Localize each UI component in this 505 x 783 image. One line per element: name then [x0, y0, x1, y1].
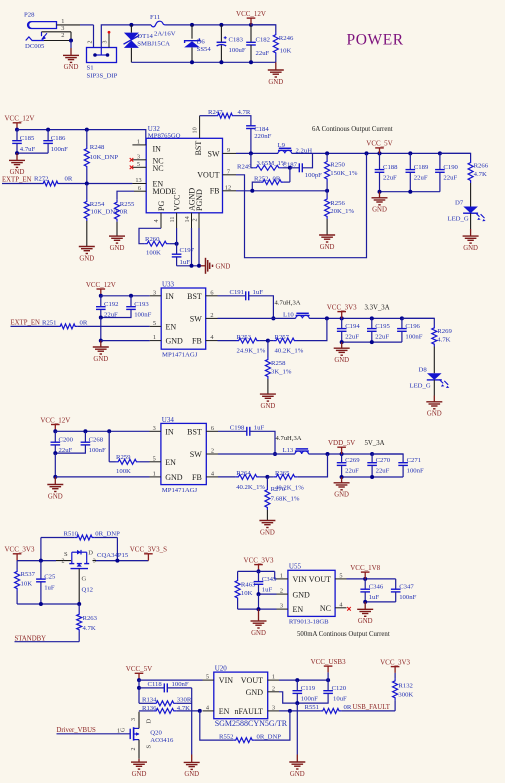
svg-text:22uF: 22uF: [375, 333, 389, 340]
svg-text:SS54: SS54: [197, 46, 212, 53]
svg-text:VOUT: VOUT: [309, 575, 331, 584]
pin 3 nFAULT U20: [268, 705, 279, 712]
switch S1 SIP3S_DIP: [87, 34, 118, 80]
svg-text:VOUT: VOUT: [197, 171, 219, 180]
net label Driver_VBUS: [57, 727, 96, 734]
power VDD_5V output: [328, 439, 355, 454]
wire SW node: [236, 151, 278, 155]
capacitor C120 10uF: [297, 680, 347, 703]
svg-text:3: 3: [61, 25, 64, 32]
pin 2 SW U34: [206, 448, 218, 455]
pin 5 EN U34: [150, 455, 161, 462]
pin 1 GND U34: [150, 471, 161, 478]
wire pin3 to pin2 junction: [69, 32, 73, 43]
ground D7: [463, 229, 479, 252]
ground R254: [79, 247, 95, 263]
svg-text:VCC_5V: VCC_5V: [126, 665, 152, 673]
wire C192 gnd leg: [99, 318, 103, 343]
svg-text:R134: R134: [142, 696, 157, 703]
ground U32 sideways: [201, 258, 231, 274]
svg-text:1: 1: [137, 139, 140, 146]
wire bottom return rail: [131, 60, 275, 64]
svg-text:2: 2: [272, 685, 275, 692]
power VCC_3V3_S: [130, 546, 167, 561]
svg-text:R551: R551: [305, 704, 320, 711]
svg-text:C197: C197: [180, 247, 195, 254]
text L13 rating: [276, 435, 302, 442]
capacitor C182 22uF: [246, 25, 270, 62]
svg-text:VCC_3V3: VCC_3V3: [327, 303, 357, 311]
svg-text:22uF: 22uF: [376, 468, 390, 475]
LED D7 LED_G: [448, 200, 486, 229]
svg-text:5: 5: [153, 455, 156, 462]
svg-text:R254: R254: [90, 201, 105, 208]
svg-text:10K_DNP: 10K_DNP: [90, 154, 119, 161]
wire jack pin2: [44, 40, 71, 42]
capacitor C25 1uF: [36, 561, 56, 604]
svg-text:D: D: [88, 549, 93, 556]
svg-text:100pF: 100pF: [305, 172, 322, 179]
svg-text:3: 3: [93, 558, 96, 564]
node 12V input rail: [129, 23, 151, 27]
capacitor C184 220nF: [246, 126, 271, 154]
svg-text:GND: GND: [334, 492, 349, 499]
resistor R255 0R: [115, 200, 135, 236]
svg-text:C195: C195: [375, 323, 390, 330]
capacitor C189 22uF: [406, 153, 429, 191]
svg-text:C191: C191: [230, 289, 245, 296]
svg-text:P28: P28: [24, 12, 35, 19]
resistor R134 330R: [139, 696, 192, 705]
power VCC_3V3 U55: [244, 556, 274, 573]
svg-text:nFAULT: nFAULT: [235, 707, 264, 716]
svg-text:EN: EN: [166, 323, 177, 332]
svg-text:13: 13: [135, 177, 141, 184]
svg-text:GND: GND: [463, 245, 478, 252]
svg-text:R258: R258: [271, 360, 286, 367]
wire output cap bottoms: [378, 190, 440, 194]
svg-text:VCC_12V: VCC_12V: [236, 10, 266, 18]
wire U20 VIN: [139, 679, 203, 681]
svg-text:0R: 0R: [120, 209, 128, 216]
svg-text:1: 1: [280, 573, 283, 580]
resistor R258 3K_1%: [265, 341, 291, 395]
svg-text:3: 3: [103, 41, 109, 44]
svg-text:3.3V_3A: 3.3V_3A: [365, 304, 390, 311]
svg-text:1uF: 1uF: [44, 585, 55, 592]
svg-text:20K_1%: 20K_1%: [330, 208, 354, 215]
ground R256: [319, 235, 335, 251]
IC U33 MP1471AGJ: [161, 281, 206, 359]
resistor R252 0R: [252, 168, 290, 191]
svg-text:USB_FAULT: USB_FAULT: [353, 704, 391, 711]
power VCC_5V U20: [126, 665, 152, 682]
ground R258: [260, 394, 276, 410]
svg-text:GND: GND: [48, 493, 63, 500]
svg-text:NC: NC: [153, 164, 164, 173]
svg-text:C346: C346: [369, 584, 384, 591]
svg-text:GND: GND: [184, 771, 199, 778]
svg-text:SW: SW: [190, 314, 202, 323]
capacitor C190 22uF: [435, 153, 458, 191]
svg-text:GND: GND: [166, 337, 184, 346]
capacitor C186 100nF: [43, 130, 68, 154]
svg-text:GND: GND: [260, 529, 275, 536]
ground U34: [47, 477, 63, 500]
svg-text:22uF: 22uF: [256, 50, 270, 57]
svg-text:SW: SW: [208, 149, 220, 158]
svg-text:220nF: 220nF: [254, 133, 271, 140]
capacitor C345 1uF: [254, 571, 277, 594]
svg-text:GND: GND: [427, 411, 442, 418]
capacitor C191 1uF: [218, 289, 276, 321]
svg-text:R552: R552: [219, 733, 234, 740]
wire VCC branch: [137, 680, 141, 703]
svg-text:C345: C345: [262, 576, 277, 583]
wire U55 input: [238, 571, 277, 579]
svg-text:GND: GND: [10, 169, 25, 176]
wire U32 analog ground: [177, 264, 201, 268]
power VCC_3V3 R132: [380, 658, 410, 678]
svg-text:0R_DNP: 0R_DNP: [257, 733, 282, 740]
capacitor C192 22uF: [96, 296, 119, 319]
svg-text:R270: R270: [271, 486, 286, 493]
svg-text:BST: BST: [187, 292, 202, 301]
svg-text:C347: C347: [399, 584, 414, 591]
svg-text:C270: C270: [376, 457, 391, 464]
svg-text:VIN: VIN: [293, 575, 307, 584]
svg-text:GND: GND: [293, 590, 311, 599]
svg-text:VCC_3V3: VCC_3V3: [380, 658, 410, 666]
capacitor C271 100nF: [372, 454, 424, 477]
pin 1 VOUT U20: [268, 674, 279, 681]
svg-text:GND: GND: [93, 356, 108, 363]
wire U55 en: [238, 607, 277, 611]
wire C200 gnd leg: [53, 453, 57, 479]
resistor R552 0R_DNP: [200, 711, 290, 743]
svg-text:GND: GND: [64, 64, 79, 71]
svg-text:VOUT: VOUT: [241, 676, 263, 685]
pin 1 IN: [132, 139, 146, 146]
svg-text:100nF: 100nF: [172, 681, 189, 688]
svg-text:0R: 0R: [344, 704, 352, 711]
ground Q20: [131, 759, 147, 778]
svg-text:R251: R251: [42, 320, 57, 327]
wire C118 R134 gnd leg: [191, 688, 193, 755]
net label STANDBY: [15, 635, 47, 642]
svg-text:L10: L10: [283, 311, 294, 318]
svg-text:LED_G: LED_G: [410, 382, 431, 389]
wire U55 gnd pin: [257, 592, 277, 609]
svg-text:DT14: DT14: [137, 33, 153, 40]
svg-text:C25: C25: [44, 573, 56, 580]
svg-text:100nF: 100nF: [407, 468, 424, 475]
pin 14 AGND: [184, 213, 192, 266]
capacitor C118 100nF: [139, 681, 192, 692]
svg-text:RT9013-18GB: RT9013-18GB: [289, 618, 329, 625]
svg-text:SMBJ15CA: SMBJ15CA: [137, 41, 170, 48]
svg-text:GND: GND: [372, 207, 387, 214]
svg-text:PGND: PGND: [195, 189, 204, 211]
svg-text:330R: 330R: [177, 696, 192, 703]
resistor R272 0R: [34, 176, 73, 187]
wire Q12 gate net: [78, 569, 80, 604]
svg-text:VIN: VIN: [219, 676, 233, 685]
pin 2 GND U20: [268, 685, 279, 692]
ground 3V3 caps: [334, 342, 350, 364]
capacitor C347 100nF: [391, 579, 417, 602]
svg-text:IN: IN: [166, 292, 175, 301]
svg-text:C194: C194: [345, 323, 360, 330]
power VCC_12V input: [236, 10, 266, 25]
svg-text:10K: 10K: [280, 47, 292, 54]
svg-text:MP1471AGJ: MP1471AGJ: [162, 487, 198, 494]
svg-text:SIP3S_DIP: SIP3S_DIP: [87, 73, 118, 80]
IC U34 MP1471AGJ: [161, 416, 206, 494]
capacitor C198 1uF: [218, 424, 277, 456]
svg-text:AO3416: AO3416: [150, 737, 174, 744]
diode D6 SS54: [184, 25, 211, 62]
svg-text:6: 6: [138, 185, 141, 192]
pin 3 IN U34: [150, 425, 161, 432]
IC U32 MP8765GQ: [146, 125, 222, 213]
svg-text:VCC_USB3: VCC_USB3: [311, 658, 347, 666]
svg-text:4.7uH,3A: 4.7uH,3A: [275, 300, 301, 307]
wire VOUT sense loop: [236, 153, 367, 257]
svg-text:2: 2: [61, 32, 64, 39]
pin 3 label: [61, 25, 64, 32]
svg-text:D6: D6: [197, 39, 206, 46]
svg-text:C188: C188: [383, 164, 398, 171]
svg-text:Q12: Q12: [82, 586, 94, 593]
resistor R270 7.68K_1%: [265, 477, 300, 521]
svg-text:6: 6: [210, 289, 213, 296]
svg-text:10K: 10K: [241, 590, 253, 597]
svg-text:PG: PG: [157, 201, 166, 211]
ground D8: [426, 396, 442, 418]
LED D8 LED_G: [410, 366, 450, 395]
pin 3 IN U33: [150, 289, 161, 296]
resistor R265 40.2K_1%: [267, 454, 327, 491]
net label EXTP_EN U33: [11, 320, 41, 327]
svg-text:5: 5: [206, 674, 209, 681]
svg-text:R269: R269: [437, 328, 452, 335]
svg-text:100nF: 100nF: [301, 695, 318, 702]
resistor R257 40.2K_1%: [268, 318, 327, 354]
wire Q12 source node: [17, 559, 71, 563]
svg-text:40.2K_1%: 40.2K_1%: [236, 484, 265, 491]
ground jack: [63, 41, 79, 72]
svg-text:3: 3: [137, 154, 140, 161]
pin 3 EN U55: [277, 603, 288, 610]
ground 1V8 caps: [357, 602, 373, 625]
capacitor C269 22uF: [337, 454, 360, 477]
svg-text:9: 9: [227, 147, 230, 154]
svg-text:3: 3: [280, 603, 283, 610]
capacitor C194 22uF: [337, 318, 360, 342]
svg-text:SGM2588CYN5G/TR: SGM2588CYN5G/TR: [215, 719, 288, 728]
wire U33 gnd: [101, 340, 150, 342]
ground C118 leg: [184, 755, 200, 779]
pin 9 SW: [223, 147, 237, 154]
svg-text:SW: SW: [190, 450, 202, 459]
svg-text:VCC_12V: VCC_12V: [86, 281, 116, 289]
svg-text:VCC_12V: VCC_12V: [40, 416, 70, 424]
svg-text:3: 3: [153, 425, 156, 432]
svg-text:U34: U34: [162, 416, 175, 424]
svg-text:1uF: 1uF: [180, 259, 191, 266]
svg-text:DC005: DC005: [25, 43, 45, 50]
wire jack pin3: [42, 31, 72, 33]
wire FB node: [236, 189, 329, 193]
svg-text:VCC_3V3: VCC_3V3: [5, 546, 35, 554]
pin 12 FB: [223, 184, 237, 191]
resistor R254 10K_DNP: [84, 184, 119, 247]
svg-text:24.9K_1%: 24.9K_1%: [237, 348, 266, 355]
svg-text:7.68K_1%: 7.68K_1%: [271, 495, 300, 502]
resistor R251 0R: [11, 320, 88, 329]
svg-text:LED_G: LED_G: [448, 216, 469, 223]
svg-text:C198: C198: [230, 424, 245, 431]
svg-text:500mA Continous Output Current: 500mA Continous Output Current: [297, 631, 390, 638]
svg-text:1uF: 1uF: [262, 586, 273, 593]
svg-text:GND: GND: [110, 245, 125, 252]
capacitor C270 22uF: [367, 454, 390, 477]
power VCC_12V U34: [40, 416, 70, 433]
svg-text:VCC: VCC: [173, 195, 182, 211]
wire EXTP_EN: [2, 183, 41, 185]
svg-text:VCC_12V: VCC_12V: [5, 115, 35, 123]
ground 5V caps: [334, 477, 350, 499]
svg-text:FB: FB: [210, 187, 220, 196]
svg-text:GND: GND: [358, 618, 373, 625]
svg-text:5V_3A: 5V_3A: [365, 440, 385, 447]
svg-text:R246: R246: [279, 35, 294, 42]
pin 10 BST: [192, 116, 200, 139]
svg-text:R263: R263: [83, 615, 98, 622]
svg-text:22uF: 22uF: [345, 468, 359, 475]
svg-text:2: 2: [88, 41, 94, 44]
wire U33 input rail: [101, 294, 150, 298]
capacitor C197 1uF: [172, 228, 195, 266]
TVS diode DT14 SMBJ15CA: [124, 25, 171, 62]
pin 5 VIN U20: [203, 674, 214, 681]
svg-text:4.7R: 4.7R: [238, 109, 251, 116]
wire bias bottom: [17, 602, 81, 606]
inductor L9 2.2uH: [278, 142, 313, 155]
power VCC_3V3 Q12: [5, 546, 35, 561]
svg-text:GND: GND: [268, 79, 283, 86]
svg-text:3K_1%: 3K_1%: [271, 368, 292, 375]
svg-text:1uF: 1uF: [369, 594, 380, 601]
pin 7 VOUT: [223, 168, 237, 175]
resistor R256 20K_1%: [325, 191, 355, 235]
svg-text:5: 5: [153, 320, 156, 327]
resistor R269 4.7K: [402, 318, 453, 373]
svg-text:2: 2: [210, 312, 213, 319]
net label EXTP_EN: [2, 177, 32, 184]
pin 1 VIN U55: [277, 573, 288, 580]
svg-text:GND: GND: [165, 473, 183, 482]
wire R272 to U32 EN: [60, 182, 132, 186]
svg-text:0R: 0R: [65, 176, 73, 183]
svg-text:VCC_3V3_S: VCC_3V3_S: [130, 546, 167, 554]
svg-text:C118: C118: [148, 681, 163, 688]
wire VDD_5V rail: [309, 452, 404, 456]
resistor R463 10K: [235, 571, 256, 609]
svg-text:S: S: [64, 551, 68, 558]
pin 4 NC U55: [335, 601, 351, 610]
svg-text:4.7K: 4.7K: [474, 171, 487, 178]
resistor R136 4.7K: [139, 705, 202, 713]
svg-text:12: 12: [225, 184, 231, 191]
svg-text:100uF: 100uF: [229, 47, 246, 54]
connector P28 DC005 barrel jack: [24, 12, 57, 51]
pin 6 BST U33: [206, 289, 218, 296]
wire R251 to U33 EN: [77, 325, 150, 327]
svg-text:G: G: [121, 727, 127, 732]
svg-text:1: 1: [153, 334, 156, 341]
ground U55: [251, 609, 267, 637]
svg-text:C120: C120: [332, 685, 347, 692]
svg-text:22uF: 22uF: [414, 175, 428, 182]
svg-text:R537: R537: [21, 571, 36, 578]
resistor R510 0R_DNP: [41, 531, 120, 561]
svg-text:GND: GND: [132, 771, 147, 778]
svg-text:C182: C182: [256, 36, 271, 43]
wire VOUT rail: [279, 678, 330, 682]
wire U32 MODE to R255: [117, 191, 134, 200]
pin 2 SW U33: [206, 312, 218, 319]
svg-text:11: 11: [169, 216, 176, 222]
pin 2 GND U55: [277, 588, 288, 595]
svg-text:300K: 300K: [398, 691, 413, 698]
no-connect marker S1 pin3: [108, 31, 111, 34]
svg-text:100nF: 100nF: [89, 447, 106, 454]
svg-text:7: 7: [227, 168, 230, 175]
wire S1 to top rail: [101, 25, 131, 48]
wire SW U34: [218, 453, 295, 455]
resistor R247 4.7R: [200, 109, 251, 126]
pin 5 EN U33: [150, 320, 161, 327]
svg-text:C186: C186: [51, 135, 66, 142]
svg-text:4.7K: 4.7K: [437, 336, 450, 343]
svg-text:D: D: [146, 719, 153, 724]
resistor R132 300K: [393, 678, 414, 711]
svg-text:GND: GND: [246, 688, 264, 697]
pin 5 VOUT U55: [335, 573, 346, 580]
svg-text:R247: R247: [208, 109, 223, 116]
svg-text:1uF: 1uF: [254, 424, 265, 431]
svg-text:BST: BST: [194, 141, 203, 156]
svg-text:EN: EN: [219, 707, 230, 716]
ground U32 input caps: [9, 153, 25, 176]
svg-text:2: 2: [131, 748, 137, 751]
power VCC_12V U33: [86, 281, 116, 298]
svg-text:C184: C184: [254, 126, 269, 133]
svg-text:IN: IN: [165, 427, 174, 436]
svg-text:10K_DNP: 10K_DNP: [91, 209, 120, 216]
svg-text:C269: C269: [345, 457, 360, 464]
pin 1 label: [61, 18, 64, 25]
wire U34 input rail: [55, 429, 149, 433]
svg-text:3: 3: [153, 289, 156, 296]
capacitor C187 100pF: [283, 153, 323, 179]
ground input rail: [268, 62, 284, 86]
svg-text:100nF: 100nF: [405, 333, 422, 340]
net label USB_FAULT: [353, 704, 391, 711]
svg-text:R260: R260: [145, 236, 160, 243]
